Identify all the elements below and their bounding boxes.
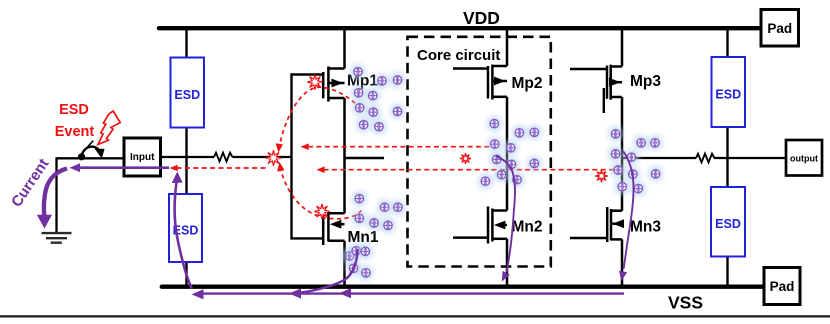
transistor Mn2 (NMOS) — [453, 207, 507, 244]
bottom frame line — [0, 315, 830, 317]
damage star at Mn1 gate — [314, 204, 329, 219]
ground — [42, 233, 72, 243]
positive charge symbols (circled plus) — [342, 64, 663, 280]
transistor Mp3 gate spur — [603, 88, 605, 113]
svg-text:Mn3: Mn3 — [630, 219, 661, 236]
purple ESD current: thick arc to ground — [44, 169, 67, 217]
svg-text:Core circuit: Core circuit — [417, 47, 500, 64]
ESD cell top-right — [712, 57, 746, 127]
svg-text:Input: Input — [130, 152, 155, 163]
svg-text:VSS: VSS — [668, 293, 703, 313]
purple current arrow along input wire — [78, 166, 169, 169]
ESD cell bottom-right — [711, 187, 745, 257]
switch lever arc — [82, 147, 100, 154]
ESD cell bottom-left — [169, 194, 202, 262]
transistor Mn3 (NMOS) — [570, 207, 622, 242]
red dashed path: lower leakage arrow across core — [324, 169, 619, 171]
wire: inverter3 drain bus — [621, 28, 624, 285]
wire: input net from switch to resistor to gate bracket — [57, 157, 292, 158]
transistor Mp2 (PMOS) — [453, 65, 507, 100]
svg-text:Mp3: Mp3 — [630, 73, 661, 90]
damage star in core circuit — [460, 153, 471, 164]
svg-text:Event: Event — [55, 124, 95, 140]
transistor Mn1 (NMOS) — [323, 208, 344, 245]
purple current from Mn3 to VSS — [623, 151, 634, 269]
red dashed path: leakage arrow toward input pad — [177, 167, 267, 169]
transistor Mp1 (PMOS) — [323, 66, 344, 101]
red dashed arc: Mn1 gate-oxide path — [280, 167, 361, 219]
VSS rail — [162, 285, 764, 289]
purple current up-arrow through left ESD — [175, 180, 192, 289]
wire: inverter1 output stub — [345, 157, 385, 159]
damage star at input node — [266, 150, 282, 166]
ESD cell top-left — [171, 58, 205, 128]
damage star at Mp1 gate — [307, 74, 322, 89]
purple current main return line along VSS — [198, 292, 624, 294]
svg-text:Mp2: Mp2 — [512, 75, 543, 92]
purple current from Mn2 to VSS — [496, 156, 515, 272]
output pad box — [786, 140, 822, 176]
transistor Mp3 (PMOS) — [570, 65, 622, 100]
resistor R2 (output series) — [696, 154, 714, 163]
svg-text:ESD: ESD — [174, 88, 200, 102]
svg-text:ESD: ESD — [715, 87, 741, 101]
wire: inverter1 drain bus — [343, 28, 346, 285]
wire: left ESD column — [185, 28, 187, 286]
wire: right ESD column — [726, 28, 728, 286]
lightning bolt icon — [98, 111, 120, 145]
wire: inverter2 drain bus — [506, 28, 509, 285]
switch blade tick — [84, 141, 93, 151]
wire: output net with resistor — [622, 157, 786, 159]
VDD rail — [159, 26, 761, 30]
resistor R1 (input series) — [214, 153, 232, 162]
red dashed arc: Mp1 gate-oxide path — [279, 87, 361, 147]
input pad box — [124, 138, 161, 176]
svg-text:ESD: ESD — [715, 217, 741, 231]
svg-text:Pad: Pad — [770, 279, 795, 294]
svg-text:ESD: ESD — [59, 102, 89, 118]
svg-text:Mn1: Mn1 — [348, 229, 379, 246]
svg-text:output: output — [790, 154, 818, 164]
red dashed path: upper leakage arrow into Mp1 gate — [308, 146, 493, 148]
purple current from Mn1 to VSS — [296, 249, 358, 293]
node: switch contact dot — [78, 153, 85, 160]
wire: left vertical to ground — [55, 157, 57, 233]
damage star at Mn3 — [595, 170, 607, 182]
svg-text:Pad: Pad — [767, 21, 792, 36]
svg-text:VDD: VDD — [463, 8, 500, 28]
gate bracket for Mp1/Mn1 — [292, 75, 323, 239]
pad box top-right — [761, 10, 799, 47]
svg-text:Mn2: Mn2 — [512, 219, 543, 236]
pad box bottom-right — [764, 268, 800, 305]
core circuit dashed boundary — [408, 37, 551, 267]
